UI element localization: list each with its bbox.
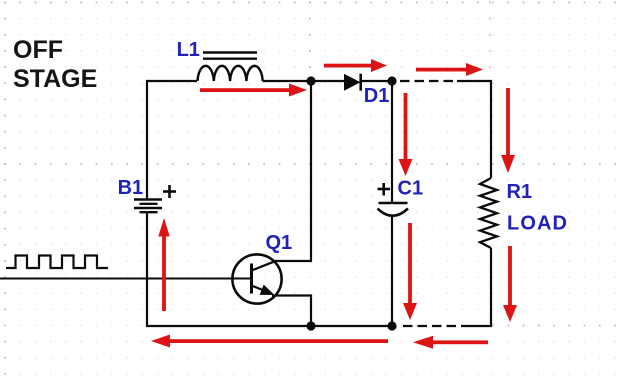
wire R1 bottom to bottom right corner	[461, 248, 491, 326]
svg-text:OFF: OFF	[13, 36, 63, 64]
svg-text:R1: R1	[507, 181, 533, 203]
wire top right corner into R1 branch	[457, 81, 491, 178]
red current arrow up through battery branch	[158, 218, 169, 311]
red current arrow bottom right short left	[413, 336, 488, 349]
svg-text:B1: B1	[118, 177, 144, 199]
wire left vertical lower (battery bottom to bottom rail)	[146, 212, 148, 327]
node C junction dot (emitter bottom)	[306, 321, 315, 330]
capacitor plus sign	[378, 183, 391, 196]
svg-text:LOAD: LOAD	[507, 213, 568, 235]
base drive wire from left edge to Q1 base	[0, 278, 251, 280]
inductor L1	[198, 53, 263, 82]
wire node A to diode anode	[311, 80, 345, 82]
battery B1	[134, 200, 162, 213]
red current arrow bottom rail long left	[151, 335, 388, 348]
battery plus sign	[163, 185, 176, 198]
wire top from inductor to node A	[263, 80, 312, 82]
dashed wire bottom (R1 corner toward node D)	[399, 325, 456, 327]
dashed wire top (node B toward R1 branch)	[400, 80, 457, 82]
diode D1	[344, 74, 361, 91]
svg-text:L1: L1	[177, 39, 200, 61]
red current arrow down R1 branch upper	[501, 88, 515, 173]
wire C1 top lead from node B	[391, 81, 393, 203]
red current arrow over diode	[324, 59, 387, 72]
wire diode cathode to node B	[362, 80, 392, 82]
svg-text:D1: D1	[364, 85, 390, 107]
wire C1 bottom lead to bottom rail	[391, 215, 393, 326]
square wave input signal	[6, 256, 108, 269]
red current arrow down C1 branch upper	[399, 93, 413, 176]
svg-text:C1: C1	[398, 178, 424, 200]
red current arrow through inductor	[200, 84, 307, 97]
wire top-left horizontal from left corner to inductor	[146, 80, 197, 82]
red current arrow down R1 branch lower	[503, 246, 517, 322]
wire left vertical upper (corner to battery top)	[146, 80, 148, 199]
node D junction dot (C1 bottom)	[387, 321, 396, 330]
red current arrow down C1 branch lower	[403, 223, 417, 320]
svg-text:Q1: Q1	[266, 232, 293, 254]
red current arrow over top dashed wire	[416, 63, 483, 76]
capacitor C1	[378, 203, 409, 216]
bottom rail wire	[146, 325, 392, 327]
collector wire Q1 to node A	[276, 81, 312, 261]
node A junction dot	[306, 76, 315, 85]
resistor R1	[480, 178, 497, 248]
transistor Q1	[232, 254, 281, 303]
node B junction dot	[387, 76, 396, 85]
emitter wire Q1 to bottom rail	[272, 296, 311, 327]
svg-text:STAGE: STAGE	[13, 65, 97, 93]
